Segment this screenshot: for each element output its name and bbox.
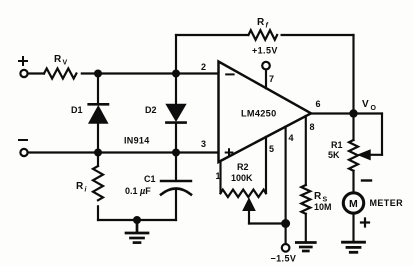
svg-text:R1: R1	[331, 140, 343, 150]
wire down right side	[381, 114, 383, 155]
svg-text:−1.5V: −1.5V	[271, 254, 297, 264]
svg-text:V: V	[63, 60, 68, 67]
pin 8 wire	[305, 116, 307, 185]
wire node D to pin 3	[176, 151, 219, 153]
potentiometer R2	[221, 190, 266, 197]
wire RV to node A	[82, 72, 98, 74]
wire Ri bottom to C1 bottom	[98, 219, 176, 221]
node A junction	[94, 70, 102, 78]
pin 3 label	[201, 139, 206, 149]
svg-text:O: O	[371, 105, 377, 112]
pin 6 label	[316, 99, 321, 109]
label 0.1 uF	[125, 186, 151, 196]
svg-text:0.1 µF: 0.1 µF	[125, 186, 151, 196]
svg-text:6: 6	[316, 99, 321, 109]
ground G3	[343, 242, 365, 252]
feedback wire up from node B	[175, 35, 177, 74]
pin 1 wire	[219, 161, 221, 193]
label IN914	[124, 136, 150, 146]
svg-text:R: R	[54, 54, 62, 65]
wire + input to RV	[28, 72, 44, 74]
svg-text:R: R	[257, 17, 265, 28]
svg-text:IN914: IN914	[124, 136, 150, 146]
feedback wire down to node VO	[352, 35, 354, 114]
svg-text:5: 5	[269, 144, 274, 154]
ground G2	[296, 243, 315, 252]
svg-text:LM4250: LM4250	[241, 109, 277, 119]
wire node C to node D	[98, 151, 176, 153]
label Ri	[76, 181, 88, 194]
svg-text:D2: D2	[145, 105, 157, 115]
svg-text:C1: C1	[144, 174, 156, 184]
pin 1 label	[216, 171, 221, 181]
meter plus label	[361, 219, 369, 227]
label 5K	[328, 150, 340, 160]
pin 4 label	[289, 133, 294, 143]
pin 5 label	[269, 144, 274, 154]
+1.5V terminal	[262, 62, 270, 70]
label VO	[362, 99, 377, 112]
op-amp U1 LM4250	[219, 62, 312, 163]
svg-text:+1.5V: +1.5V	[252, 46, 278, 56]
wire RS to ground	[305, 214, 307, 242]
pin 6 output wire	[311, 112, 354, 114]
R2 wiper arrow	[243, 199, 255, 211]
label 10M	[314, 202, 332, 212]
node B junction	[172, 70, 180, 78]
meter M1	[343, 193, 363, 213]
svg-text:i: i	[85, 187, 88, 194]
label METER	[370, 198, 404, 208]
pin 8 label	[310, 122, 315, 132]
R1 wiper arrow shaft	[369, 154, 382, 156]
resistor RV	[44, 69, 76, 79]
feedback wire to RF	[176, 34, 248, 36]
diode D2	[166, 74, 186, 153]
+ input polarity label	[19, 57, 27, 65]
wire node VO to right corner	[354, 112, 383, 114]
svg-text:R: R	[314, 191, 322, 202]
wire - input to node C	[28, 151, 98, 153]
meter minus label	[362, 179, 371, 181]
node VO junction	[349, 109, 357, 117]
label D1	[71, 105, 83, 115]
wire wiper down	[248, 211, 250, 224]
feedback wire RF to right corner	[282, 34, 354, 36]
resistor RS	[301, 185, 310, 214]
svg-text:2: 2	[201, 62, 206, 72]
V- node junction	[281, 219, 290, 228]
label +1.5V	[252, 46, 278, 56]
svg-text:3: 3	[201, 139, 206, 149]
label 100K	[231, 173, 253, 183]
+ input terminal	[20, 70, 27, 77]
R1 wiper arrowhead	[358, 150, 370, 160]
svg-text:8: 8	[310, 122, 315, 132]
label D2	[145, 105, 157, 115]
label LM4250	[241, 109, 277, 119]
- input terminal	[20, 149, 27, 156]
node C junction	[94, 149, 102, 157]
svg-text:10M: 10M	[314, 202, 332, 212]
pin 4 wire	[285, 127, 287, 224]
rheostat R1	[349, 140, 358, 171]
wire node A to node B	[98, 72, 176, 74]
label R1	[331, 140, 343, 150]
capacitor C1	[161, 153, 191, 221]
label -1.5V	[271, 254, 297, 264]
pin 5 wire	[265, 137, 267, 193]
wire to -1.5V terminal	[285, 224, 287, 244]
label C1	[144, 174, 156, 184]
label RF	[257, 17, 269, 30]
wire wiper to V- node	[249, 222, 286, 224]
svg-text:R: R	[76, 181, 84, 192]
label RV	[54, 54, 68, 67]
svg-text:4: 4	[289, 133, 294, 143]
svg-text:R2: R2	[237, 162, 249, 172]
op-amp non-inverting input mark	[226, 149, 233, 156]
svg-text:f: f	[266, 23, 269, 30]
pin 2 label	[201, 62, 206, 72]
label RS	[314, 191, 328, 204]
wire node VO down to R1	[352, 114, 354, 141]
diode D1	[89, 74, 108, 153]
op-amp inverting input mark	[226, 73, 233, 75]
svg-text:M: M	[349, 198, 358, 210]
svg-text:7: 7	[269, 74, 274, 84]
- input polarity label	[19, 139, 27, 141]
junction at ground bus	[133, 216, 141, 224]
svg-text:V: V	[362, 99, 369, 110]
node D junction	[172, 149, 180, 157]
resistor RF	[249, 30, 278, 40]
wire node B to pin 2	[176, 72, 219, 74]
label R2	[237, 162, 249, 172]
pin 7 wire	[265, 70, 267, 89]
wire R1 to meter	[352, 171, 354, 193]
svg-text:100K: 100K	[231, 173, 253, 183]
ground G1	[126, 220, 148, 243]
svg-text:METER: METER	[370, 198, 404, 208]
svg-text:D1: D1	[71, 105, 83, 115]
svg-text:5K: 5K	[328, 150, 340, 160]
wire meter to ground	[352, 213, 354, 242]
svg-text:1: 1	[216, 171, 221, 181]
resistor Ri	[93, 153, 103, 221]
pin 7 label	[269, 74, 274, 84]
-1.5V terminal	[282, 244, 290, 252]
